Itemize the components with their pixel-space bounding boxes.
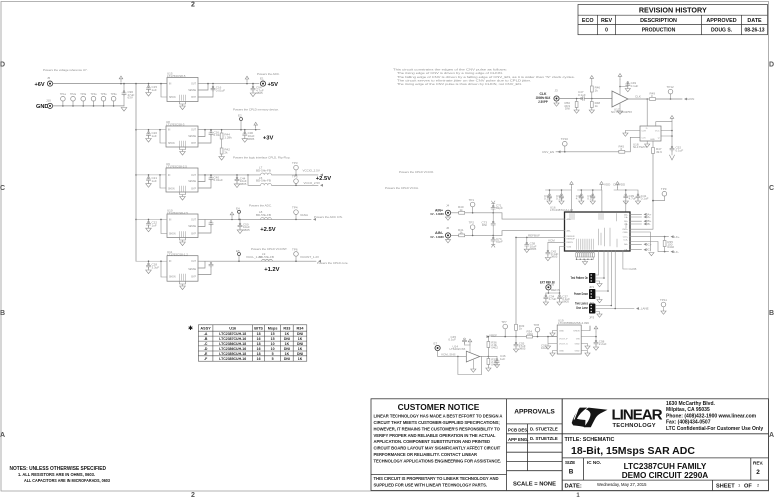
- svg-text:AIN-: AIN-: [567, 230, 571, 233]
- svg-text:LTC2387CUH FAMILY: LTC2387CUH FAMILY: [624, 462, 707, 471]
- svg-text:10: 10: [271, 347, 275, 351]
- svg-text:+2.5V: +2.5V: [260, 227, 275, 233]
- svg-text:The rising edge of the CNV pul: The rising edge of the CNV pulse is thus…: [397, 82, 522, 86]
- wire VREF bus: [491, 336, 557, 338]
- svg-text:Powers the ADC.: Powers the ADC.: [257, 72, 280, 76]
- svg-text:LTC2386CUH-16: LTC2386CUH-16: [219, 347, 246, 351]
- TITLE BLOCK: [562, 399, 768, 491]
- svg-text:CLK+: CLK+: [672, 235, 680, 239]
- svg-text:TP2a: TP2a: [70, 93, 77, 96]
- svg-text:Q: Q: [658, 137, 660, 139]
- terminal EXT REF IN: [540, 247, 565, 294]
- test point TP2: [469, 221, 475, 237]
- svg-text:DA-: DA-: [624, 216, 628, 219]
- svg-text:0805: 0805: [551, 255, 558, 259]
- svg-text:5: 5: [272, 357, 274, 361]
- svg-text:C: C: [769, 185, 774, 192]
- svg-text:OUT: OUT: [191, 175, 196, 177]
- capacitor C58: [595, 337, 597, 342]
- CLK input terminal J3: [536, 89, 559, 107]
- svg-text:HOWEVER, IT REMAINS THE CUSTOM: HOWEVER, IT REMAINS THE CUSTOMER'S RESPO…: [374, 426, 501, 431]
- capacitor C37: [557, 293, 570, 305]
- wire AIN-: [451, 231, 565, 236]
- svg-text:1uF: 1uF: [152, 134, 157, 138]
- svg-text:DA-: DA-: [624, 248, 628, 251]
- svg-text:BYP: BYP: [191, 188, 196, 190]
- svg-text:5: 5: [272, 352, 274, 356]
- svg-text:Powers the CPLD memory device.: Powers the CPLD memory device.: [233, 108, 279, 112]
- capacitor C56: [496, 356, 498, 360]
- ferrite L5 branch VCCO: [248, 175, 419, 191]
- svg-text:0402: 0402: [491, 346, 498, 350]
- svg-text:BYP: BYP: [191, 277, 196, 279]
- svg-text:THIS CIRCUIT IS PROPRIETARY TO: THIS CIRCUIT IS PROPRIETARY TO LINEAR TE…: [374, 476, 499, 481]
- svg-text:0402: 0402: [667, 245, 674, 249]
- svg-text:Milpitas, CA 95035: Milpitas, CA 95035: [666, 407, 710, 413]
- svg-text:TP6: TP6: [292, 247, 298, 251]
- bypass cap C45: [465, 343, 471, 353]
- decoupling group CLKVDD: [613, 182, 649, 213]
- svg-text:0.1uF: 0.1uF: [676, 148, 684, 152]
- svg-text:2k: 2k: [224, 150, 228, 154]
- svg-text:VCM: VCM: [548, 239, 555, 243]
- resistor R49 series: [650, 98, 656, 101]
- svg-text:B: B: [0, 310, 5, 317]
- test point TP1: [469, 198, 475, 214]
- svg-text:VANA: VANA: [300, 213, 308, 217]
- svg-text:TP8: TP8: [534, 323, 540, 327]
- svg-text:BYP: BYP: [191, 233, 196, 235]
- svg-text:TP1: TP1: [469, 198, 475, 202]
- svg-text:SHDN: SHDN: [168, 143, 175, 145]
- svg-text:E5: E5: [236, 249, 240, 253]
- wire REFBUF: [515, 237, 564, 337]
- regulator U11 LT1763CS8-1.2: [136, 250, 198, 290]
- svg-text:TECHNOLOGY: TECHNOLOGY: [613, 423, 656, 429]
- svg-text:VCC: VCC: [655, 131, 660, 133]
- svg-text:1K: 1K: [285, 352, 290, 356]
- svg-text:DNI: DNI: [297, 342, 303, 346]
- capacitor C38 on REFBUF: [524, 237, 536, 252]
- svg-text:DNI: DNI: [297, 332, 303, 336]
- svg-text:CLK: CLK: [635, 95, 641, 99]
- svg-text:2.5VPP: 2.5VPP: [538, 100, 548, 104]
- svg-text:REVISION HISTORY: REVISION HISTORY: [639, 6, 707, 15]
- svg-text:10uF: 10uF: [541, 346, 548, 350]
- svg-text:TP4a: TP4a: [91, 93, 98, 96]
- svg-text:SENSE: SENSE: [188, 269, 196, 271]
- svg-text:-B: -B: [204, 337, 208, 341]
- svg-text:TP4: TP4: [292, 205, 298, 209]
- svg-text:1k: 1k: [519, 327, 523, 331]
- svg-text:CIRCUIT BOARD LAYOUT MAY SIGNI: CIRCUIT BOARD LAYOUT MAY SIGNIFICANTLY A…: [374, 446, 501, 451]
- svg-text:0.1uF: 0.1uF: [631, 84, 639, 88]
- svg-text:49.9: 49.9: [656, 150, 662, 154]
- svg-text:82pF: 82pF: [496, 240, 503, 244]
- svg-text:GND: GND: [575, 344, 580, 346]
- svg-text:CLKB: CLKB: [629, 267, 637, 271]
- svg-text:E1: E1: [260, 77, 264, 81]
- svg-text:BD-5hk-FB: BD-5hk-FB: [256, 168, 271, 172]
- svg-text:10: 10: [271, 342, 275, 346]
- svg-text:OUT: OUT: [191, 84, 196, 86]
- ADC right outputs DA: [630, 201, 669, 252]
- svg-text:+6V: +6V: [35, 82, 45, 88]
- svg-text:0.1uF: 0.1uF: [578, 93, 586, 97]
- capacitor C30 output: [242, 129, 255, 142]
- svg-text:63V: 63V: [128, 96, 133, 100]
- wire CLKIN to CLK pin: [646, 99, 648, 126]
- svg-text:TP7: TP7: [501, 320, 507, 324]
- svg-text:16: 16: [257, 357, 261, 361]
- svg-text:LTC2385CUH-18: LTC2385CUH-18: [219, 352, 246, 356]
- capacitor C15: [146, 83, 158, 96]
- svg-text:One Lane: One Lane: [576, 306, 588, 310]
- svg-text:0805: 0805: [530, 247, 537, 251]
- svg-text:TP5a: TP5a: [101, 93, 108, 96]
- svg-text:APPROVALS: APPROVALS: [514, 409, 555, 416]
- svg-text:0805: 0805: [256, 91, 263, 95]
- regulator U9 LT1763CS8-2.5: [136, 162, 198, 200]
- svg-text:1K: 1K: [285, 342, 290, 346]
- svg-text:PRODUCTION: PRODUCTION: [642, 28, 676, 34]
- svg-text:SHDN: SHDN: [169, 233, 176, 235]
- REVISION HISTORY table: [578, 5, 768, 35]
- svg-text:LTC Confidential-For Customer: LTC Confidential-For Customer Use Only: [666, 426, 763, 432]
- svg-text:Phone: (408)432-1900 www.line: Phone: (408)432-1900 www.linear.com: [666, 413, 757, 419]
- wire AIN+: [451, 213, 565, 219]
- svg-text:NOTES: UNLESS OTHERWISE SPECIF: NOTES: UNLESS OTHERWISE SPECIFIED: [10, 466, 107, 472]
- svg-text:J10: J10: [46, 99, 51, 103]
- svg-text:ASSY: ASSY: [200, 327, 211, 331]
- output wire: [480, 355, 497, 357]
- capacitor C94 output: [245, 76, 264, 96]
- bottom pin stubs + resistor pack: [577, 239, 594, 253]
- svg-text:J5: J5: [47, 76, 51, 80]
- svg-text:VIN: VIN: [576, 339, 580, 341]
- decoupling group VDD: [576, 182, 611, 213]
- svg-text:0: 0: [605, 28, 608, 34]
- wire GND bus: [53, 105, 124, 107]
- svg-text:VCM_SNS: VCM_SNS: [441, 353, 456, 357]
- svg-text:ALL CAPACITORS ARE IN MICROFAR: ALL CAPACITORS ARE IN MICROFARADS, 0603: [24, 478, 111, 483]
- svg-text:VERIFY PROPER AND RELIABLE OPE: VERIFY PROPER AND RELIABLE OPERATION IN …: [374, 433, 496, 438]
- svg-text:0805: 0805: [519, 347, 526, 351]
- svg-text:0.1uF: 0.1uF: [556, 197, 564, 201]
- svg-text:DATE:: DATE:: [565, 484, 582, 490]
- svg-text:DNI: DNI: [284, 357, 290, 361]
- svg-text:SENSE: SENSE: [188, 226, 196, 228]
- svg-text:OUT: OUT: [191, 130, 196, 132]
- svg-text:1uF: 1uF: [152, 88, 157, 92]
- svg-text:TP11: TP11: [660, 298, 667, 302]
- svg-text:0805: 0805: [248, 137, 255, 141]
- svg-text:Powers the voltage reference U: Powers the voltage reference U7.: [43, 68, 88, 72]
- test point TP7: [501, 320, 507, 337]
- CUSTOMER NOTICE block: [371, 399, 562, 491]
- svg-text:Powers the ADC.: Powers the ADC.: [249, 203, 272, 207]
- svg-text:+1.2V: +1.2V: [264, 267, 279, 273]
- wire VCM + capacitor C42: [545, 239, 564, 261]
- svg-text:SENSE: SENSE: [188, 136, 196, 138]
- regulator U10 LT1763CS8-2.5: [136, 208, 198, 245]
- svg-text:J6: J6: [446, 226, 450, 230]
- svg-text:SHDN: SHDN: [168, 188, 175, 190]
- svg-text:18: 18: [257, 342, 261, 346]
- svg-text:OUT: OUT: [191, 219, 196, 221]
- svg-text:PERFORMANCE OR RELIABILITY. C: PERFORMANCE OR RELIABILITY. CONTACT LINE…: [374, 452, 478, 457]
- ferrite L8: [256, 205, 343, 220]
- jumper JP3 Two Lanes / One Lane: [575, 298, 667, 319]
- decoupling group VDD25: [544, 182, 573, 213]
- svg-text:REFIN: REFIN: [551, 288, 560, 292]
- note block CNV timing: [393, 68, 575, 86]
- svg-text:REFBUF: REFBUF: [528, 233, 540, 237]
- svg-text:DNI: DNI: [284, 347, 290, 351]
- svg-text:E2: E2: [238, 114, 242, 118]
- svg-text:1uF: 1uF: [500, 357, 505, 361]
- gnd below op-amp: [472, 360, 474, 369]
- test point TP12: [670, 94, 672, 99]
- vertical pin name smudges top: [570, 214, 626, 248]
- resistor R34 series: [527, 329, 533, 338]
- svg-text:1k: 1k: [595, 104, 599, 108]
- resistor R40 series: [458, 205, 465, 214]
- svg-text:LINEAR TECHNOLOGY HAS MADE A B: LINEAR TECHNOLOGY HAS MADE A BEST EFFORT…: [374, 414, 503, 419]
- svg-text:+3V: +3V: [263, 136, 274, 142]
- svg-text:DB-: DB-: [646, 222, 651, 226]
- svg-text:Powers the CPLD VCCINT.: Powers the CPLD VCCINT.: [251, 247, 288, 251]
- svg-text:D. STUETZLE: D. STUETZLE: [530, 427, 558, 432]
- svg-text:NL17SZ74: NL17SZ74: [633, 145, 648, 149]
- svg-text:CNV_EN: CNV_EN: [542, 150, 554, 154]
- svg-text:Powers the ADC C/S.: Powers the ADC C/S.: [314, 215, 343, 219]
- svg-text:VCM: VCM: [567, 247, 572, 249]
- svg-text:IN: IN: [168, 175, 171, 177]
- svg-text:CMN-: CMN-: [623, 232, 629, 234]
- svg-text:J3: J3: [555, 89, 559, 93]
- NOTES bottom-left: [10, 466, 111, 483]
- svg-text:1.28k: 1.28k: [224, 135, 232, 139]
- svg-text:✱: ✱: [188, 325, 193, 332]
- resistor R33 on REFBUF rail: [515, 324, 525, 337]
- svg-text:IC NO.: IC NO.: [587, 460, 601, 465]
- svg-text:BYP: BYP: [191, 143, 196, 145]
- svg-text:JP3: JP3: [589, 315, 595, 319]
- svg-text:0.01uF: 0.01uF: [214, 178, 224, 182]
- svg-text:TP5: TP5: [292, 175, 298, 179]
- svg-text:DNI: DNI: [284, 337, 290, 341]
- svg-text:1uF: 1uF: [152, 179, 157, 183]
- svg-text:CLK+: CLK+: [623, 237, 629, 239]
- svg-text:2.2uF: 2.2uF: [599, 342, 607, 346]
- svg-text:BITS: BITS: [254, 327, 263, 331]
- capacitor C74 to DNI: [491, 235, 503, 248]
- svg-text:AIN+: AIN+: [567, 218, 572, 221]
- svg-text:BD-5hk-FB: BD-5hk-FB: [256, 179, 271, 183]
- svg-text:0.1uF: 0.1uF: [641, 197, 649, 201]
- svg-text:Power Down: Power Down: [574, 292, 588, 296]
- svg-text:1. ALL RESISTORS ARE IN OHMS,: 1. ALL RESISTORS ARE IN OHMS, 0603.: [18, 472, 95, 477]
- resistor R48 shunt: [589, 99, 600, 114]
- svg-text:18-Bit, 15Msps SAR ADC: 18-Bit, 15Msps SAR ADC: [571, 445, 695, 457]
- resistor R46 pull-up: [590, 76, 600, 100]
- test point TP8: [534, 323, 540, 337]
- capacitor C26 / resistor R44 chain: [198, 129, 260, 160]
- svg-text:-C: -C: [204, 342, 208, 346]
- wire CLKIN: [628, 85, 694, 101]
- gnd on PRE: [625, 131, 640, 134]
- svg-text:R34: R34: [297, 327, 305, 331]
- svg-text:JP1: JP1: [589, 285, 595, 289]
- svg-text:LTC2385CUH-16: LTC2385CUH-16: [219, 357, 246, 361]
- jumper JP2 Power Down: [574, 289, 609, 305]
- svg-text:16: 16: [257, 347, 261, 351]
- svg-text:08-26-13: 08-26-13: [744, 28, 764, 34]
- svg-text:B: B: [769, 310, 774, 317]
- svg-text:J4: J4: [446, 204, 450, 208]
- svg-text:Test Pattern On: Test Pattern On: [571, 276, 589, 280]
- resistor R35 termination: [663, 236, 674, 253]
- svg-text:3.3uF: 3.3uF: [152, 265, 160, 269]
- terminal AIN- J6: [430, 226, 450, 243]
- wire CNV bus: [652, 187, 667, 201]
- svg-text:TP12: TP12: [667, 85, 675, 89]
- svg-text:Powers the CPLD core.: Powers the CPLD core.: [317, 261, 349, 265]
- svg-text:PCB DES.: PCB DES.: [508, 428, 528, 433]
- svg-text:BYP: BYP: [191, 97, 196, 99]
- resistor R47 on CNV: [652, 141, 663, 201]
- svg-text:CLR: CLR: [642, 131, 647, 133]
- svg-text:SENSE: SENSE: [188, 90, 196, 92]
- svg-text:Fax: (408)434-0507: Fax: (408)434-0507: [666, 420, 711, 426]
- svg-text:DC-: DC-: [646, 248, 651, 252]
- svg-text:REV.: REV.: [753, 461, 763, 466]
- svg-text:VOUT_S: VOUT_S: [559, 344, 568, 346]
- svg-text:A: A: [0, 432, 5, 439]
- svg-text:LTC2387CUH-16: LTC2387CUH-16: [219, 337, 246, 341]
- capacitor C34: [543, 293, 556, 305]
- svg-text:OF: OF: [744, 483, 752, 489]
- jumper JP1 Test Pattern On: [571, 273, 605, 289]
- capacitor C20: [146, 129, 158, 142]
- svg-text:REFBUF: REFBUF: [567, 239, 576, 241]
- output / ferrite L9: [198, 247, 349, 274]
- svg-text:C: C: [0, 185, 5, 192]
- svg-text:GND: GND: [36, 104, 48, 110]
- svg-text:TITLE: SCHEMATIC: TITLE: SCHEMATIC: [565, 437, 615, 443]
- svg-text:TP3a: TP3a: [80, 93, 87, 96]
- flip-flop U18: [623, 99, 684, 160]
- svg-text:Powers the CPLD VCCA.: Powers the CPLD VCCA.: [385, 186, 419, 190]
- svg-text:LTC2386CUH-18: LTC2386CUH-18: [219, 342, 246, 346]
- svg-text:-D: -D: [204, 347, 208, 351]
- svg-text:IN: IN: [169, 261, 172, 263]
- svg-text:1K: 1K: [298, 347, 303, 351]
- svg-text:Powers the logic interface CPL: Powers the logic interface CPLD, Flip-Fl…: [233, 155, 291, 159]
- capacitor C40 bypass: [198, 174, 248, 188]
- capacitor C55 on VREF: [513, 337, 525, 353]
- svg-text:DNI: DNI: [565, 107, 570, 111]
- resistor R41 series: [458, 228, 465, 237]
- svg-text:4.7uF: 4.7uF: [629, 197, 637, 201]
- svg-text:4.7uF: 4.7uF: [576, 197, 584, 201]
- svg-text:CLK-: CLK-: [672, 250, 679, 254]
- svg-text:LINEAR: LINEAR: [612, 407, 663, 424]
- svg-text:U16: U16: [229, 327, 236, 331]
- svg-text:BD-5hk-FB: BD-5hk-FB: [259, 255, 274, 259]
- svg-text:TP1a: TP1a: [60, 93, 67, 96]
- wire CNV_EN: [542, 137, 640, 154]
- svg-text:REFIN: REFIN: [567, 242, 574, 244]
- svg-text:2: 2: [756, 469, 760, 476]
- svg-text:TP6a: TP6a: [111, 93, 118, 96]
- svg-text:CLKIN: CLKIN: [686, 97, 695, 101]
- LT logo: [572, 407, 663, 430]
- svg-text:DNI: DNI: [297, 352, 303, 356]
- svg-text:TP10: TP10: [561, 137, 569, 141]
- svg-text:Powers the CPLD VCCIO.: Powers the CPLD VCCIO.: [399, 170, 434, 174]
- capacitor C44 output: [234, 174, 247, 187]
- reference U19 LT6655: [541, 318, 607, 356]
- svg-text:1k: 1k: [595, 88, 599, 92]
- svg-text:0V - 4.096V: 0V - 4.096V: [430, 212, 444, 216]
- terminal AIN+ J4: [430, 204, 450, 221]
- svg-text:GND: GND: [559, 331, 564, 333]
- svg-text:0805: 0805: [243, 228, 250, 232]
- svg-text:DC+: DC+: [646, 242, 652, 246]
- svg-text:DATE: DATE: [747, 18, 762, 24]
- ADC U16 LTC2387CUH-18: [550, 206, 636, 309]
- svg-text:2: 2: [191, 2, 195, 9]
- svg-text:LTC6655BHMS8-4.096: LTC6655BHMS8-4.096: [558, 321, 589, 325]
- svg-text:SHDN: SHDN: [573, 331, 580, 333]
- capacitor C96 input bulk: [119, 76, 123, 82]
- capacitor C47 series: [578, 90, 586, 101]
- svg-text:CIRCUIT THAT MEETS CUSTOMER-SU: CIRCUIT THAT MEETS CUSTOMER-SUPPLIED SPE…: [374, 420, 500, 425]
- test point TP7: [238, 114, 258, 131]
- svg-text:CLK: CLK: [642, 137, 647, 139]
- svg-text:BD-5hk-FB: BD-5hk-FB: [256, 213, 271, 217]
- svg-text:SHDN: SHDN: [169, 277, 176, 279]
- svg-text:DB-: DB-: [624, 224, 628, 226]
- svg-text:0.1uF: 0.1uF: [587, 197, 595, 201]
- svg-text:1K: 1K: [298, 357, 303, 361]
- resistor R37: [487, 356, 489, 358]
- svg-text:A: A: [769, 432, 774, 439]
- output wire / test point / cap C50: [198, 207, 311, 234]
- svg-text:15: 15: [271, 332, 275, 336]
- svg-text:+2.5V: +2.5V: [316, 176, 331, 182]
- svg-text:2: 2: [191, 492, 195, 499]
- svg-text:1uF: 1uF: [152, 224, 157, 228]
- svg-text:B: B: [569, 469, 574, 476]
- svg-text:SHDN: SHDN: [169, 97, 176, 99]
- capacitor C73 diff: [481, 213, 495, 236]
- resistor R36: [487, 337, 489, 342]
- svg-text:VCCIO_2.5V: VCCIO_2.5V: [303, 169, 320, 173]
- capacitor C21: [146, 174, 158, 187]
- svg-text:1K: 1K: [298, 337, 303, 341]
- svg-text:0.1uF: 0.1uF: [448, 338, 456, 342]
- svg-text:0805: 0805: [562, 300, 569, 304]
- regulator U8 LT1763CS8-3: [136, 120, 198, 155]
- resistor R50 shunt: [564, 98, 579, 114]
- svg-text:Wednesday, May 27, 2015: Wednesday, May 27, 2015: [597, 482, 647, 487]
- capacitor C22: [146, 219, 158, 232]
- svg-text:CUSTOMER NOTICE: CUSTOMER NOTICE: [398, 402, 480, 412]
- svg-text:Two Lanes: Two Lanes: [575, 302, 588, 306]
